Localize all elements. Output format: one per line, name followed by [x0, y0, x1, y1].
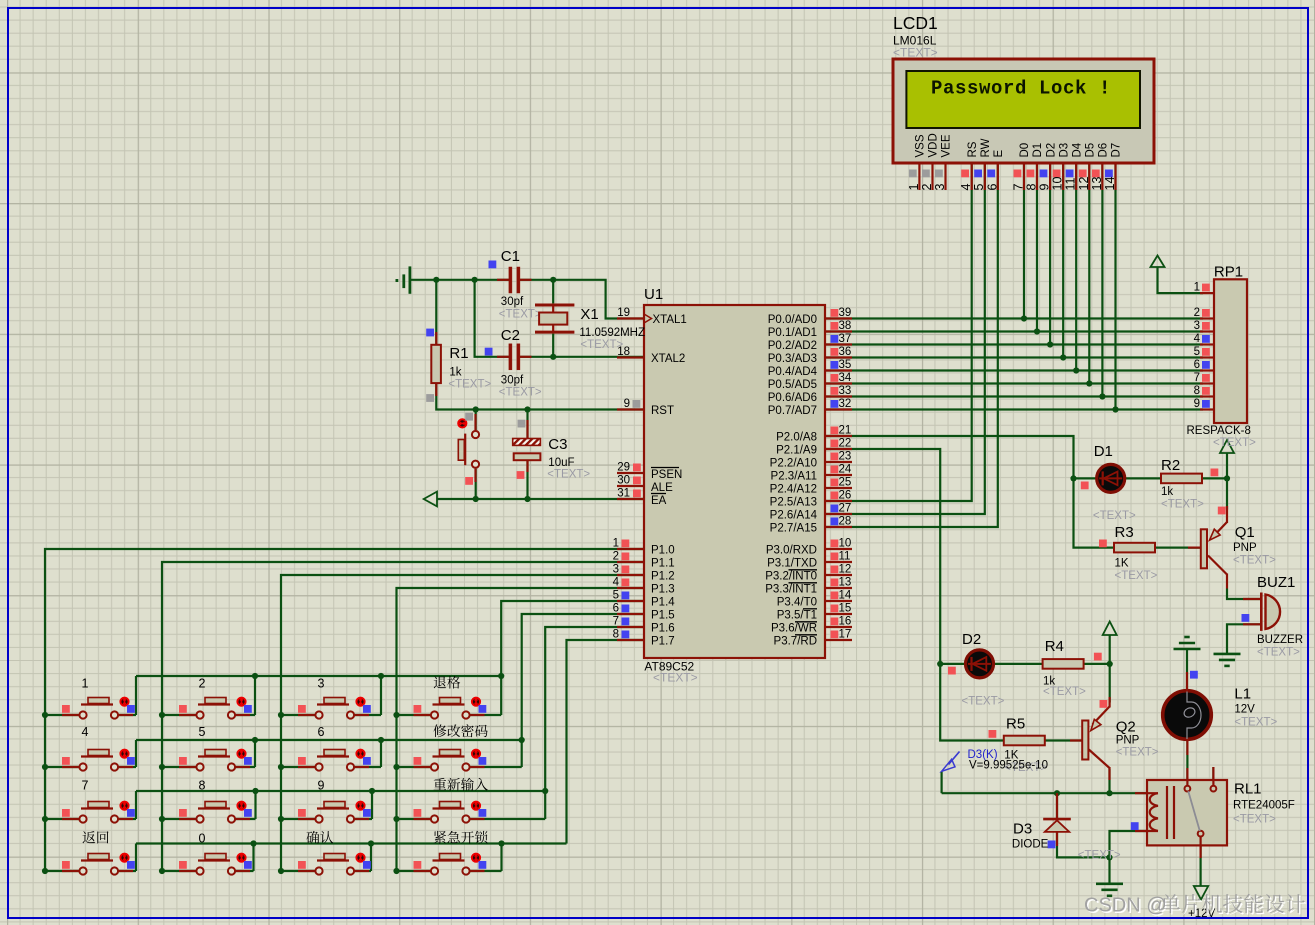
svg-text:P1.5: P1.5 — [651, 610, 675, 622]
svg-text:13: 13 — [839, 577, 852, 589]
wire row1 col2 left — [162, 714, 196, 716]
svg-text:P3.1/TXD: P3.1/TXD — [767, 558, 817, 570]
D2 labels — [962, 631, 1005, 708]
wire probe stub — [940, 771, 942, 793]
wire LCD D0 vertical — [1023, 163, 1025, 318]
svg-text:10: 10 — [1051, 177, 1065, 191]
svg-text:C3: C3 — [548, 436, 567, 453]
svg-text:8: 8 — [1025, 184, 1039, 191]
label key 5 — [199, 725, 206, 739]
junction D2/P0.2 — [1047, 341, 1053, 347]
ground below D3/relay — [1096, 882, 1123, 885]
wire LCD D5 vertical — [1088, 163, 1090, 383]
capacitor C2 — [485, 344, 532, 370]
svg-text:5: 5 — [972, 184, 986, 191]
wire row2 col1 riser — [135, 740, 137, 767]
svg-text:P2.4/A12: P2.4/A12 — [770, 484, 817, 496]
push button keypad r4c3 — [298, 854, 371, 875]
push button keypad r1c2 — [179, 698, 252, 719]
svg-text:1: 1 — [613, 538, 619, 550]
U1 P0 pins — [768, 307, 852, 417]
svg-text:39: 39 — [839, 307, 852, 319]
svg-text:CSDN @: CSDN @ — [1084, 895, 1167, 917]
svg-text:D0: D0 — [1019, 143, 1031, 158]
junction D3/P0.3 — [1060, 354, 1066, 360]
junction P2.1/D2 — [937, 661, 943, 667]
wire row2 col4 riser — [521, 740, 523, 767]
push button keypad r1c1 — [62, 698, 135, 719]
svg-text:<TEXT>: <TEXT> — [1078, 850, 1121, 862]
push button keypad r3c2 — [179, 802, 252, 823]
resistor R2 — [1161, 469, 1218, 484]
junction D5/P0.5 — [1086, 380, 1092, 386]
LCD pin stubs — [919, 163, 1115, 190]
svg-text:23: 23 — [839, 451, 852, 463]
svg-text:6: 6 — [318, 725, 325, 739]
wire row3 col4 right — [470, 818, 545, 820]
junction link2/riser4 — [519, 737, 525, 743]
svg-text:13: 13 — [1090, 177, 1104, 191]
wire R1 bottom to RST row — [436, 383, 644, 410]
wire RP1 pin1 to power — [1158, 267, 1204, 293]
svg-text:RTE24005F: RTE24005F — [1233, 800, 1295, 812]
svg-text:D3: D3 — [1013, 821, 1032, 838]
svg-text:10uF: 10uF — [548, 457, 574, 469]
svg-text:XTAL2: XTAL2 — [651, 353, 685, 365]
ground near C1 — [397, 266, 410, 293]
svg-text:EA: EA — [651, 495, 667, 507]
wire row1 col4 right — [470, 714, 501, 716]
RP1 RESPACK-8 body — [1214, 279, 1247, 423]
wire row1 col4 left — [397, 714, 431, 716]
svg-text:1: 1 — [907, 184, 921, 191]
svg-text:5: 5 — [1194, 346, 1200, 358]
junction bus3/row at 767 — [278, 764, 284, 770]
label key 确认 — [306, 831, 333, 844]
svg-text:RL1: RL1 — [1234, 781, 1262, 798]
wire row1 col2 right — [236, 714, 256, 716]
wire row 3 link — [136, 790, 545, 792]
push button keypad r2c2 — [179, 750, 252, 771]
svg-text:14: 14 — [1103, 177, 1117, 191]
junction P2.0/D1 — [1070, 475, 1076, 481]
C1 labels — [499, 248, 542, 321]
wire row 1 link — [136, 675, 501, 677]
svg-text:2: 2 — [613, 551, 619, 563]
svg-text:24: 24 — [839, 464, 852, 476]
wire R3 to Q1 base — [1154, 546, 1201, 548]
svg-text:<TEXT>: <TEXT> — [1234, 717, 1277, 729]
svg-text:ALE: ALE — [651, 482, 673, 494]
wire relay coil bottom to ground — [1110, 831, 1159, 884]
ground above L1 (inverted) — [1184, 636, 1189, 639]
junction link1/riser3 — [378, 673, 384, 679]
C3 labels — [547, 436, 590, 481]
junction R2/+5V — [1224, 475, 1230, 481]
svg-text:BUZZER: BUZZER — [1257, 634, 1303, 646]
svg-text:12: 12 — [1077, 177, 1091, 191]
push button keypad r4c4 — [414, 854, 487, 875]
wire C3 top — [526, 410, 528, 439]
wire row1 col1 left — [45, 714, 79, 716]
svg-text:VEE: VEE — [941, 134, 953, 157]
wire button top — [475, 410, 477, 431]
capacitor C3 — [513, 420, 541, 479]
wire R4 to +5V rail — [1083, 663, 1109, 665]
svg-text:P3.7/RD: P3.7/RD — [774, 636, 817, 648]
svg-text:7: 7 — [1012, 184, 1026, 191]
junction bus2/row at 767 — [159, 764, 165, 770]
wire row2 col4 left — [397, 766, 431, 768]
svg-text:38: 38 — [839, 320, 852, 332]
svg-text:D1: D1 — [1032, 143, 1044, 158]
junction coil/Q2 — [1106, 790, 1112, 796]
svg-text:U1: U1 — [644, 286, 663, 303]
wire row4 col3 left — [281, 870, 315, 872]
wire D2 anode stub — [940, 663, 965, 665]
junction link2/riser3 — [378, 737, 384, 743]
wire row4 col1 right — [119, 870, 137, 872]
svg-text:P1.0: P1.0 — [651, 545, 675, 557]
svg-text:P1.2: P1.2 — [651, 571, 675, 583]
wire C1 right to XTAL1 — [520, 280, 644, 319]
svg-text:12: 12 — [839, 564, 852, 576]
svg-text:33: 33 — [839, 385, 852, 397]
power rail vertical Q2 — [1109, 635, 1111, 703]
svg-text:P0.3/AD3: P0.3/AD3 — [768, 353, 817, 365]
svg-text:<TEXT>: <TEXT> — [893, 46, 938, 60]
svg-text:<TEXT>: <TEXT> — [1233, 555, 1276, 567]
R5 labels — [1004, 716, 1047, 775]
junction link1/riser4 — [498, 673, 504, 679]
svg-text:P0.7/AD7: P0.7/AD7 — [768, 405, 817, 417]
wire D3 anode bottom — [1057, 832, 1110, 857]
svg-text:37: 37 — [839, 333, 852, 345]
svg-text:PSEN: PSEN — [651, 469, 682, 481]
wire gnd to L1 — [1186, 649, 1188, 690]
label key 返回 — [82, 831, 108, 843]
wire C2 right to XTAL2 — [520, 356, 644, 358]
svg-text:P1.6: P1.6 — [651, 623, 675, 635]
wire P0.4 to RP1 pin 6 — [825, 369, 1203, 371]
svg-text:P2.7/A15: P2.7/A15 — [770, 523, 817, 535]
svg-text:P2.6/A14: P2.6/A14 — [770, 510, 818, 522]
wire P0.0 to RP1 pin 2 — [825, 317, 1203, 319]
svg-text:17: 17 — [839, 629, 852, 641]
relay RL1 — [1131, 767, 1227, 858]
R1 labels — [448, 345, 491, 391]
wire row1 col3 riser — [380, 676, 382, 715]
svg-text:16: 16 — [839, 616, 852, 628]
push button keypad r4c1 — [62, 854, 135, 875]
label key 9 — [318, 779, 325, 793]
svg-text:6: 6 — [613, 603, 619, 615]
wire BUZ1 bottom to ground — [1227, 624, 1262, 654]
svg-text:P3.6/WR: P3.6/WR — [771, 623, 817, 635]
wire row2 col4 right — [470, 766, 522, 768]
svg-text:10: 10 — [839, 538, 852, 550]
LCD pin name labels — [915, 133, 1123, 157]
wire row4 col2 left — [162, 870, 196, 872]
svg-text:P2.1/A9: P2.1/A9 — [776, 445, 817, 457]
svg-text:<TEXT>: <TEXT> — [448, 379, 491, 391]
wire P0.3 to RP1 pin 5 — [825, 356, 1203, 358]
junction bus2/row at 715 — [159, 712, 165, 718]
svg-text:22: 22 — [839, 438, 852, 450]
svg-text:R1: R1 — [449, 345, 468, 362]
wire L1 to relay pole — [1186, 740, 1188, 789]
svg-text:30pf: 30pf — [501, 296, 524, 308]
svg-text:VSS: VSS — [915, 134, 927, 157]
junction EA-C3 — [524, 496, 530, 502]
svg-text:RESPACK-8: RESPACK-8 — [1187, 425, 1251, 437]
svg-text:P3.3/INT1: P3.3/INT1 — [765, 584, 817, 596]
junction link4/riser2 — [250, 840, 256, 846]
svg-text:12V: 12V — [1234, 704, 1255, 716]
svg-text:11.0592MHZ: 11.0592MHZ — [579, 327, 645, 339]
push button keypad r3c3 — [298, 802, 371, 823]
wire row4 col2 riser — [252, 844, 254, 872]
junction link3/riser2 — [252, 788, 258, 794]
svg-text:1K: 1K — [1115, 558, 1129, 570]
U1 left control pins — [617, 307, 687, 507]
Q1 labels — [1233, 524, 1276, 567]
wire P1.6 to row link 3 — [545, 627, 644, 791]
svg-text:1: 1 — [82, 677, 89, 691]
junction crystal top — [550, 277, 556, 283]
push button keypad r2c1 — [62, 750, 135, 771]
svg-text:RW: RW — [980, 138, 992, 157]
junction link3/riser3 — [369, 788, 375, 794]
wire row2 col1 right — [119, 766, 137, 768]
U1 P2 pins — [770, 425, 852, 535]
label key 修改密码 — [433, 724, 487, 737]
wire row4 col4 right — [470, 870, 502, 872]
buzzer BUZ1 — [1242, 593, 1281, 631]
wire row4 col2 right — [236, 870, 254, 872]
svg-text:3: 3 — [933, 184, 947, 191]
push button keypad r3c1 — [62, 802, 135, 823]
RP1 pins — [1194, 282, 1214, 410]
svg-text:D2: D2 — [1045, 143, 1057, 158]
svg-text:4: 4 — [613, 577, 620, 589]
junction link1/riser2 — [252, 673, 258, 679]
junction bus1/row at 871 — [42, 868, 48, 874]
svg-text:R3: R3 — [1115, 524, 1134, 541]
svg-text:P3.0/RXD: P3.0/RXD — [766, 545, 817, 557]
wire row4 col1 left — [45, 870, 79, 872]
wire row3 col1 left — [45, 818, 79, 820]
label key 重新输入 — [434, 778, 488, 791]
svg-text:LCD1: LCD1 — [893, 13, 938, 33]
svg-text:4: 4 — [1194, 333, 1201, 345]
svg-text:<TEXT>: <TEXT> — [1233, 814, 1276, 826]
wire row3 col1 riser — [135, 791, 137, 819]
label key 7 — [82, 779, 89, 793]
R4 labels — [1043, 638, 1086, 698]
label key 退格 — [434, 676, 460, 689]
svg-text:BUZ1: BUZ1 — [1257, 574, 1295, 591]
junction bus2/row at 871 — [159, 868, 165, 874]
X1 labels — [579, 306, 645, 351]
junction RST-button — [473, 406, 479, 412]
junction EA-button — [473, 496, 479, 502]
svg-text:35: 35 — [839, 359, 852, 371]
wire row4 col3 riser — [370, 844, 372, 872]
push button keypad r1c4 — [414, 698, 487, 719]
push button keypad r3c4 — [414, 802, 487, 823]
wire C2 branch vertical — [475, 280, 509, 357]
svg-text:<TEXT>: <TEXT> — [499, 309, 542, 321]
U1 P1 pins — [613, 538, 676, 648]
RP1 labels — [1187, 264, 1257, 450]
svg-text:4: 4 — [959, 184, 973, 191]
svg-text:3: 3 — [1194, 320, 1200, 332]
U1 labels — [644, 286, 698, 685]
svg-text:25: 25 — [839, 477, 852, 489]
wire row3 col2 riser — [254, 791, 256, 819]
ground below BUZ1 — [1214, 653, 1241, 656]
junction C1 node B — [472, 277, 478, 283]
svg-text:X1: X1 — [580, 306, 598, 323]
svg-text:<TEXT>: <TEXT> — [547, 469, 590, 481]
wire crystal bottom stub — [552, 334, 554, 357]
wire P0.2 to RP1 pin 4 — [825, 343, 1203, 345]
svg-text:<TEXT>: <TEXT> — [653, 671, 698, 685]
svg-text:E: E — [993, 150, 1005, 158]
D3 labels — [1012, 821, 1121, 862]
junction bus4/row at 715 — [393, 712, 399, 718]
wire row3 col4 left — [397, 818, 431, 820]
svg-text:RS: RS — [967, 141, 979, 157]
junction link2/riser2 — [252, 737, 258, 743]
svg-text:V=9.99525e-10: V=9.99525e-10 — [969, 760, 1048, 772]
wire P1.1 to column bus 2 — [162, 562, 644, 871]
wire LCD D3 vertical — [1062, 163, 1064, 357]
push button keypad r2c3 — [298, 750, 371, 771]
svg-text:RST: RST — [651, 405, 674, 417]
svg-text:DIODE: DIODE — [1012, 839, 1049, 851]
svg-text:P0.0/AD0: P0.0/AD0 — [768, 314, 817, 326]
wire row1 col3 right — [355, 714, 382, 716]
wire LCD D2 vertical — [1049, 163, 1051, 344]
junction RST-C3 — [524, 406, 530, 412]
wire row2 col2 left — [162, 766, 196, 768]
wire P0.1 to RP1 pin 3 — [825, 330, 1203, 332]
wire LCD RS to P2.5 — [825, 163, 972, 501]
wire D1 anode stub — [1074, 477, 1097, 479]
svg-text:30pf: 30pf — [501, 375, 524, 387]
svg-text:P1.3: P1.3 — [651, 584, 675, 596]
svg-text:<TEXT>: <TEXT> — [499, 387, 542, 399]
wire ground to C1/R1/C2 node — [411, 279, 509, 281]
svg-text:6: 6 — [985, 184, 999, 191]
wire D2 to R4 — [994, 663, 1044, 665]
svg-text:7: 7 — [613, 616, 619, 628]
label key 4 — [82, 725, 89, 739]
svg-text:P0.5/AD5: P0.5/AD5 — [768, 379, 817, 391]
svg-text:P2.3/A11: P2.3/A11 — [771, 471, 817, 483]
svg-text:P0.6/AD6: P0.6/AD6 — [768, 392, 817, 404]
svg-text:P2.5/A13: P2.5/A13 — [770, 497, 817, 509]
svg-text:Password Lock !: Password Lock ! — [931, 78, 1111, 100]
label key 0 — [199, 832, 206, 846]
junction D3/ground — [1106, 854, 1112, 860]
wire LCD D7 vertical — [1114, 163, 1116, 409]
wire P1.4 to row link 1 — [501, 601, 644, 676]
svg-text:21: 21 — [839, 425, 852, 437]
wire crystal top stub — [552, 280, 554, 304]
wire row1 col2 riser — [254, 676, 256, 715]
junction coil/D3 — [1054, 790, 1060, 796]
crystal X1 — [535, 305, 574, 332]
label key 6 — [318, 725, 325, 739]
wire R2 to +5V rail — [1202, 477, 1227, 479]
svg-text:PNP: PNP — [1233, 542, 1257, 554]
junction R4/+5V — [1107, 661, 1113, 667]
svg-text:5: 5 — [199, 725, 206, 739]
label key 1 — [82, 677, 89, 691]
R3 labels — [1115, 524, 1158, 582]
junction bus1/row at 767 — [42, 764, 48, 770]
junction D1/P0.1 — [1034, 328, 1040, 334]
LED D1 — [1081, 464, 1125, 492]
Q2 labels — [1116, 719, 1159, 759]
label key 3 — [318, 677, 325, 691]
svg-text:9: 9 — [318, 779, 325, 793]
transistor Q1 — [1188, 506, 1227, 589]
svg-text:<TEXT>: <TEXT> — [1257, 647, 1300, 659]
junction D0/P0.0 — [1021, 315, 1027, 321]
BUZ1 labels — [1257, 574, 1303, 659]
terminal arrow EA row — [424, 492, 437, 507]
svg-text:36: 36 — [839, 346, 852, 358]
svg-text:27: 27 — [839, 503, 852, 515]
svg-text:R4: R4 — [1045, 638, 1064, 655]
wire row1 col3 left — [281, 714, 315, 716]
capacitor C1 — [489, 261, 532, 294]
svg-text:11: 11 — [1064, 177, 1078, 190]
svg-text:2: 2 — [199, 677, 206, 691]
L1 labels — [1234, 686, 1277, 729]
svg-text:D7: D7 — [1111, 143, 1123, 158]
transistor Q2 — [1070, 697, 1110, 780]
wire P1.7 to row link 4 — [567, 640, 645, 844]
wire LCD D6 vertical — [1101, 163, 1103, 396]
U1 AT89C52 body — [644, 305, 825, 658]
resistor R3 — [1099, 540, 1155, 553]
wire P1.3 to column bus 4 — [397, 588, 645, 871]
wire row 2 link — [136, 739, 522, 741]
wire row4 col1 riser — [135, 844, 137, 872]
svg-text:28: 28 — [839, 516, 852, 528]
LCD pin numbers and state squares — [907, 170, 1117, 191]
label key 8 — [199, 779, 206, 793]
junction bus2/row at 819 — [159, 816, 165, 822]
junction D6/P0.6 — [1099, 393, 1105, 399]
LED D2 — [948, 650, 994, 678]
svg-text:P0.2/AD2: P0.2/AD2 — [768, 340, 817, 352]
resistor R5 — [989, 730, 1045, 745]
wire row3 col2 right — [236, 818, 256, 820]
svg-text:19: 19 — [617, 307, 630, 319]
svg-text:9: 9 — [624, 398, 630, 410]
svg-text:P3.5/T1: P3.5/T1 — [777, 610, 817, 622]
svg-text:D3: D3 — [1058, 143, 1070, 158]
wire LCD D1 vertical — [1036, 163, 1038, 331]
power arrow above R4 — [1103, 622, 1117, 636]
wire row3 col3 riser — [371, 791, 373, 819]
